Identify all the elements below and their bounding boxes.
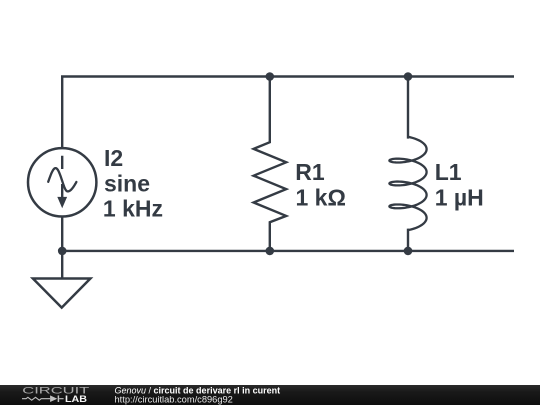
arrow shaft of I2: [61, 156, 63, 199]
sine symbol of I2: [48, 168, 76, 191]
svg-text:1 µH: 1 µH: [435, 185, 484, 211]
svg-text:LAB: LAB: [65, 394, 87, 404]
svg-text:I2: I2: [104, 145, 123, 171]
node junction bottom R1: [266, 247, 275, 256]
svg-text:http://circuitlab.com/c896g92: http://circuitlab.com/c896g92: [115, 394, 233, 404]
svg-text:1 kΩ: 1 kΩ: [296, 184, 346, 210]
node junction top R1: [266, 72, 275, 81]
node junction bottom L1: [404, 247, 413, 256]
svg-text:1 kHz: 1 kHz: [103, 195, 163, 221]
wire source bottom lead: [61, 217, 63, 279]
footer bar background: [0, 385, 540, 405]
svg-text:R1: R1: [295, 159, 325, 185]
label I2: [103, 145, 484, 221]
svg-text:L1: L1: [435, 159, 462, 185]
node junction bottom source: [58, 247, 67, 256]
current source I2: [28, 148, 96, 216]
inductor L1 coil: [389, 137, 426, 230]
svg-text:sine: sine: [104, 170, 150, 196]
logo waveform resistor zigzag: [22, 397, 50, 400]
inductor L1 leads: [407, 77, 409, 251]
logo diode symbol: [50, 395, 57, 402]
ground: [33, 279, 91, 308]
wire top rail: [62, 77, 514, 149]
arrowhead of I2: [57, 197, 67, 208]
node junction top L1: [404, 72, 413, 81]
resistor R1: [254, 77, 287, 251]
wire bottom rail: [62, 250, 514, 252]
